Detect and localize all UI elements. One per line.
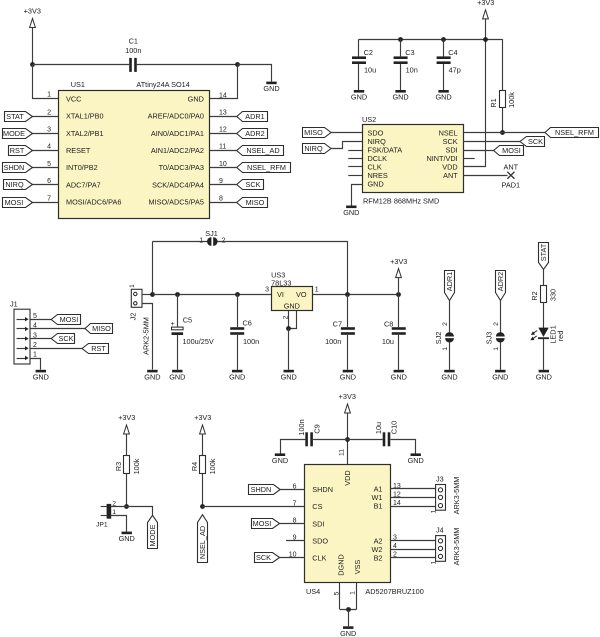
US1 pin name XTAL2/PB1	[66, 129, 104, 138]
junction	[124, 504, 129, 509]
net flag RST	[9, 146, 33, 156]
svg-text:C10: C10	[389, 421, 398, 434]
svg-text:RFM12B 868MHz SMD: RFM12B 868MHz SMD	[363, 197, 439, 206]
wire (output rail)	[313, 294, 399, 296]
ground (C3)	[392, 90, 408, 102]
net flag NSEL_AD	[237, 146, 284, 156]
svg-text:MOSI: MOSI	[502, 146, 521, 155]
net flag NSEL_RFM	[545, 128, 599, 138]
svg-text:ADC7/PA7: ADC7/PA7	[66, 180, 101, 189]
svg-text:NSEL_RFM: NSEL_RFM	[247, 163, 286, 172]
svg-text:C2: C2	[364, 48, 373, 57]
svg-text:XTAL2/PB1: XTAL2/PB1	[66, 129, 104, 138]
svg-text:GND: GND	[119, 534, 135, 543]
wire	[347, 413, 349, 465]
US1 value ATtiny24A SO14	[136, 80, 189, 89]
wire	[202, 474, 204, 507]
US2 pin name NRES	[368, 171, 388, 180]
wire	[390, 488, 436, 490]
pin 9 label	[219, 178, 223, 185]
ground (SJ2)	[441, 370, 457, 382]
svg-text:+3V3: +3V3	[477, 0, 494, 7]
wire	[390, 540, 436, 542]
J1 pin 5	[17, 313, 38, 322]
US1 designator	[71, 80, 85, 89]
svg-text:GND: GND	[536, 372, 552, 381]
svg-text:ANT: ANT	[503, 162, 518, 171]
wire	[33, 184, 59, 186]
svg-text:330: 330	[548, 289, 557, 301]
pin 3 label	[265, 287, 269, 294]
junction	[483, 37, 488, 42]
pin 9 label	[293, 535, 297, 542]
resistor R2	[530, 286, 557, 303]
capacitor C4	[437, 48, 461, 74]
capacitor C7	[325, 320, 355, 346]
capacitor C3	[394, 48, 418, 74]
junction	[175, 292, 180, 297]
US1 pin name AIN0/ADC1/PA1	[151, 129, 204, 138]
svg-text:ADR2: ADR2	[496, 272, 505, 291]
svg-text:R4: R4	[190, 462, 199, 471]
wire	[202, 434, 204, 456]
wire (US2 GND)	[352, 185, 363, 206]
svg-text:B1: B1	[374, 502, 383, 511]
US2 pin name NINT/VDI	[426, 154, 457, 163]
wire	[152, 241, 207, 243]
svg-text:GND: GND	[492, 372, 508, 381]
svg-text:MODE: MODE	[148, 524, 157, 546]
svg-text:ATtiny24A SO14: ATtiny24A SO14	[136, 80, 189, 89]
wire	[390, 557, 436, 559]
connector J3	[430, 475, 461, 515]
svg-text:100k: 100k	[208, 458, 217, 474]
US1 pin name MISO/ADC5/PA5	[148, 198, 203, 207]
junction	[235, 292, 240, 297]
net flag MOSI (US4)	[252, 519, 280, 529]
solder jumper SJ3	[485, 322, 505, 351]
capacitor C2	[352, 48, 376, 74]
ground (C6)	[229, 370, 245, 382]
svg-text:SDO: SDO	[312, 536, 328, 545]
wire	[443, 39, 445, 56]
wire	[177, 294, 179, 327]
svg-text:2: 2	[47, 109, 51, 116]
IC US2	[363, 125, 464, 193]
svg-text:100n: 100n	[297, 419, 306, 435]
wire	[390, 506, 436, 508]
svg-text:1: 1	[315, 287, 319, 294]
wire	[398, 277, 400, 294]
svg-text:5: 5	[47, 161, 51, 168]
junction	[346, 607, 351, 612]
pin 10 label	[219, 161, 227, 168]
pin 7 label	[47, 195, 51, 202]
connector J2	[129, 284, 151, 355]
pin 8 label	[219, 195, 223, 202]
svg-text:SCK: SCK	[256, 553, 271, 562]
power +3V3	[194, 413, 211, 434]
svg-text:VI: VI	[277, 290, 284, 299]
wire	[543, 302, 545, 328]
svg-text:ADR2: ADR2	[245, 129, 264, 138]
ground (US4)	[340, 626, 356, 637]
svg-text:INT0/PB2: INT0/PB2	[66, 163, 98, 172]
svg-text:GND: GND	[408, 456, 424, 465]
wire	[238, 65, 272, 82]
junction	[150, 292, 155, 297]
svg-text:J2: J2	[129, 313, 138, 321]
resistor R3	[114, 456, 141, 475]
wire	[30, 348, 82, 350]
wire	[210, 116, 237, 118]
power +3V3 (mid rail)	[390, 257, 407, 278]
LED LED1	[530, 325, 565, 343]
wire	[543, 339, 545, 370]
resistor R4	[190, 456, 217, 475]
svg-text:100n: 100n	[325, 337, 341, 346]
connector J1	[10, 300, 30, 365]
svg-text:ANT: ANT	[443, 171, 458, 180]
svg-text:11: 11	[339, 449, 346, 456]
svg-text:CS: CS	[312, 502, 322, 511]
J1 pin 1	[17, 352, 38, 361]
wire	[33, 133, 59, 135]
junction	[345, 437, 350, 442]
US2 designator	[362, 115, 376, 124]
wire	[400, 39, 402, 56]
J1 pin 4	[17, 323, 38, 332]
ground (C8)	[391, 370, 407, 382]
svg-text:1: 1	[442, 347, 449, 351]
svg-text:JP1: JP1	[96, 521, 108, 528]
svg-text:GND: GND	[392, 93, 408, 102]
svg-text:11: 11	[219, 144, 226, 151]
net flag SCK	[237, 180, 264, 190]
net flag ADR2	[496, 271, 506, 301]
svg-text:10: 10	[219, 161, 227, 168]
svg-text:1: 1	[129, 284, 136, 288]
pin 5 label	[333, 591, 340, 595]
pin 1 label	[350, 591, 357, 595]
svg-text:C6: C6	[243, 319, 252, 328]
svg-text:T0/ADC3/PA3: T0/ADC3/PA3	[159, 163, 204, 172]
pin 8 label	[293, 518, 297, 525]
IC US4	[305, 465, 391, 583]
US1 pin name AREF/ADC0/PA0	[148, 112, 204, 121]
svg-text:GND: GND	[188, 95, 204, 104]
power +3V3 (US1 VCC rail)	[24, 7, 41, 28]
US4 pin name W1	[372, 493, 383, 502]
svg-text:1: 1	[350, 591, 357, 595]
wire	[288, 328, 290, 370]
wire	[502, 39, 504, 90]
wire	[280, 557, 305, 559]
wire	[210, 202, 237, 204]
wire	[449, 301, 451, 334]
svg-text:ARK2-5MM: ARK2-5MM	[141, 317, 150, 355]
svg-text:+3V3: +3V3	[339, 392, 356, 401]
svg-text:NSEL_AD: NSEL_AD	[198, 526, 207, 559]
net flag ADR1	[445, 271, 455, 301]
US1 pin name SCK/ADC4/PA4	[152, 180, 204, 189]
svg-text:RESET: RESET	[66, 146, 91, 155]
wire	[358, 39, 360, 56]
svg-text:GND: GND	[169, 372, 185, 381]
wire	[358, 64, 360, 90]
US4 pin name VSS	[353, 560, 362, 575]
US2 pin name NIRQ	[368, 137, 387, 146]
pin 3 label	[47, 127, 51, 134]
junction	[398, 37, 403, 42]
svg-text:47p: 47p	[449, 66, 461, 75]
net flag SCK (US4)	[255, 553, 280, 563]
svg-text:J3: J3	[436, 475, 444, 484]
US4 pin name B1	[374, 502, 383, 511]
US1 pin name MOSI/ADC6/PA6	[66, 198, 121, 207]
wire (input rail)	[152, 294, 271, 296]
solder jumper SJ1	[199, 229, 225, 246]
pad PAD1 / ANT	[502, 162, 521, 189]
US4 pin name SHDN	[312, 485, 333, 494]
wire (US3 pin2)	[288, 311, 290, 329]
US1 pin name ADC7/PA7	[66, 180, 101, 189]
net flag ADR2	[237, 129, 268, 139]
svg-text:VCC: VCC	[66, 95, 81, 104]
svg-text:78L33: 78L33	[271, 279, 291, 288]
wire (SDO stub)	[286, 540, 305, 542]
wire (stub)	[348, 175, 362, 177]
wire	[331, 142, 363, 149]
US1 pin name T0/ADC3/PA3	[159, 163, 204, 172]
svg-text:100n: 100n	[243, 337, 259, 346]
wire	[400, 64, 402, 90]
svg-text:MODE: MODE	[3, 129, 25, 138]
svg-text:SJ2: SJ2	[434, 332, 443, 345]
svg-text:14: 14	[393, 500, 401, 507]
capacitor C5 (polarized)	[171, 316, 214, 347]
wire (NSEL)	[463, 132, 545, 134]
svg-text:+3V3: +3V3	[390, 257, 407, 266]
svg-text:GND: GND	[272, 456, 288, 465]
svg-text:+3V3: +3V3	[194, 413, 211, 422]
svg-text:J1: J1	[10, 300, 18, 309]
US4 pin name DGND	[336, 554, 345, 576]
wire (SCK)	[463, 141, 520, 143]
ground (C5)	[169, 370, 185, 382]
svg-text:R2: R2	[530, 291, 539, 300]
net flag MODE (JP1)	[148, 515, 158, 548]
pin 6 label	[47, 178, 51, 185]
net flag MISO	[303, 128, 332, 138]
svg-text:SHDN: SHDN	[4, 163, 25, 172]
pin 10 label	[289, 552, 297, 559]
svg-text:SDI: SDI	[312, 519, 324, 528]
wire	[33, 150, 59, 152]
US4 pin name SDI	[312, 519, 324, 528]
svg-text:C5: C5	[183, 316, 192, 325]
pin 4 label	[47, 144, 51, 151]
capacitor C1	[125, 37, 141, 72]
svg-text:AD5207BRUZ100: AD5207BRUZ100	[365, 587, 423, 596]
svg-text:GND: GND	[229, 372, 245, 381]
svg-text:ARK3-5MM: ARK3-5MM	[452, 528, 461, 566]
svg-text:R1: R1	[489, 98, 498, 107]
wire	[280, 489, 305, 491]
svg-text:10u: 10u	[374, 422, 383, 434]
svg-text:US1: US1	[71, 80, 85, 89]
svg-text:10u: 10u	[382, 337, 394, 346]
wire	[143, 304, 153, 370]
US1 pin name GND	[188, 95, 204, 104]
pin 1 label	[47, 91, 51, 98]
wire	[137, 64, 238, 66]
ground (J1)	[33, 370, 49, 382]
svg-text:13: 13	[219, 109, 227, 116]
US1 pin name AIN1/ADC2/PA2	[151, 146, 204, 155]
svg-text:3: 3	[47, 127, 51, 134]
svg-text:2: 2	[442, 322, 449, 326]
svg-text:C3: C3	[405, 48, 414, 57]
wire	[111, 516, 127, 532]
net flag MISO (J1)	[85, 324, 113, 334]
svg-text:SCK: SCK	[245, 180, 260, 189]
svg-text:AREF/ADC0/PA0: AREF/ADC0/PA0	[148, 112, 204, 121]
svg-text:1: 1	[430, 560, 437, 564]
US4 pin name CLK	[312, 554, 326, 563]
node VCC junction	[30, 62, 35, 67]
wire (CS net)	[203, 506, 305, 508]
US4 pin name B2	[374, 554, 383, 563]
pin 5 label	[47, 161, 51, 168]
wire	[210, 133, 237, 135]
svg-text:+3V3: +3V3	[118, 413, 135, 422]
junction	[396, 292, 401, 297]
svg-text:10n: 10n	[406, 66, 418, 75]
net flag MOSI (J1)	[51, 315, 80, 325]
wire	[33, 202, 59, 204]
pin 1 label	[315, 287, 319, 294]
J1 pin 3	[17, 332, 38, 341]
wire	[347, 439, 382, 441]
ground (top left)	[263, 82, 279, 94]
svg-text:VSS: VSS	[353, 560, 362, 575]
pin 2 label	[282, 315, 289, 319]
net flag NSEL_AD (US4 CS)	[198, 515, 208, 563]
US4 designator	[306, 587, 320, 596]
pin 14 label	[219, 92, 227, 99]
wire	[32, 27, 34, 65]
US2 pin name CLK	[368, 163, 382, 172]
ground (C7)	[340, 370, 356, 382]
US2 pin name SDO	[368, 129, 384, 138]
wire	[280, 523, 305, 525]
svg-text:MISO: MISO	[304, 128, 323, 137]
svg-text:GND: GND	[144, 372, 160, 381]
wire	[126, 474, 128, 507]
svg-text:7: 7	[293, 500, 297, 507]
wire (3V3 rail)	[359, 39, 503, 41]
power +3V3	[118, 413, 135, 434]
svg-text:7: 7	[47, 195, 51, 202]
capacitor C6	[230, 319, 259, 346]
svg-text:NSEL_AD: NSEL_AD	[246, 146, 279, 155]
wire	[390, 497, 436, 499]
pin 14 label	[393, 500, 401, 507]
US4 pin name SDO	[312, 536, 328, 545]
wire (stub)	[348, 150, 362, 152]
wire (pin 14)	[210, 65, 238, 99]
capacitor C9	[297, 419, 322, 446]
svg-text:1: 1	[47, 91, 51, 98]
svg-text:C9: C9	[312, 424, 321, 433]
net flag STAT (LED)	[539, 243, 549, 270]
wire	[391, 440, 416, 454]
wire	[281, 440, 306, 454]
svg-text:C1: C1	[129, 37, 138, 46]
svg-text:GND: GND	[340, 629, 356, 637]
solder jumper SJ2	[434, 322, 454, 351]
ground (C9)	[272, 453, 288, 465]
wire	[217, 241, 348, 243]
svg-text:GND: GND	[281, 372, 297, 381]
svg-text:ADR1: ADR1	[445, 272, 454, 291]
ground (US3)	[281, 370, 297, 382]
svg-text:SHDN: SHDN	[251, 485, 272, 494]
resistor R1	[489, 91, 516, 108]
wire	[331, 132, 362, 134]
ground (C10)	[408, 453, 424, 465]
svg-text:CLK: CLK	[312, 554, 326, 563]
svg-text:100k: 100k	[132, 458, 141, 474]
wire (ANT)	[463, 175, 507, 177]
net flag SHDN	[3, 163, 33, 173]
svg-text:VO: VO	[296, 290, 307, 299]
wire	[237, 335, 239, 370]
svg-text:XTAL1/PB0: XTAL1/PB0	[66, 112, 104, 121]
svg-text:GND: GND	[368, 180, 384, 189]
wire	[210, 184, 237, 186]
net flag NIRQ	[303, 144, 332, 154]
svg-text:5: 5	[33, 313, 37, 320]
jumper JP1	[96, 500, 116, 528]
US4 pin name A2	[374, 536, 383, 545]
svg-text:1: 1	[33, 352, 37, 359]
wire	[443, 64, 445, 90]
svg-text:VDD: VDD	[343, 470, 352, 485]
junction	[286, 326, 291, 331]
svg-text:GND: GND	[343, 208, 359, 217]
svg-text:ARK3-5MM: ARK3-5MM	[452, 477, 461, 515]
power +3V3 (US2 rail)	[477, 0, 494, 19]
ground (LED1)	[536, 370, 552, 382]
US2 pin name SDI	[446, 146, 458, 155]
wire	[485, 18, 487, 167]
svg-text:GND: GND	[391, 372, 407, 381]
svg-text:J4: J4	[436, 526, 444, 535]
ground (US2)	[343, 206, 359, 218]
junction	[200, 504, 205, 509]
ground (C2)	[351, 90, 367, 102]
US2 pin name VDD	[442, 163, 457, 172]
wire	[543, 269, 545, 285]
power +3V3 (US4 VDD)	[339, 392, 356, 413]
wire	[30, 319, 51, 321]
US4 value AD5207BRUZ100	[365, 587, 423, 596]
capacitor C10	[374, 421, 398, 446]
svg-text:US2: US2	[362, 115, 376, 124]
US2 pin name ANT	[443, 171, 458, 180]
